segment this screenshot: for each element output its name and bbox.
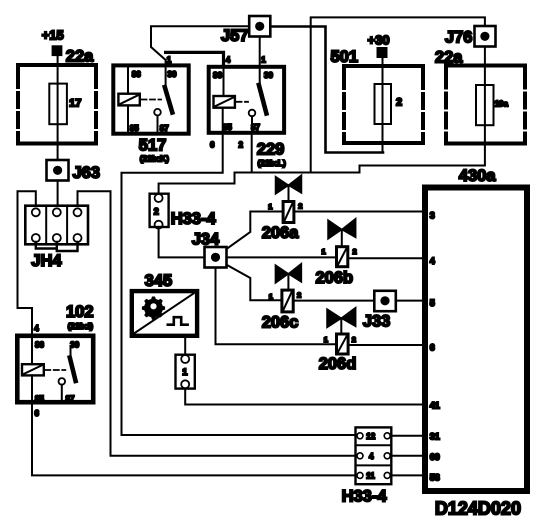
svg-text:H33-4: H33-4 — [171, 210, 217, 228]
svg-text:2: 2 — [154, 207, 159, 217]
svg-text:J76: J76 — [445, 29, 473, 47]
svg-text:1: 1 — [269, 292, 273, 301]
wire: H33-4 pin 12 to 430a pin 31 — [393, 435, 425, 437]
wire: J76 through fuse 22a down and left to relay 229 pin 2 bus — [235, 47, 485, 173]
svg-text:2: 2 — [298, 202, 302, 211]
control unit 345 — [132, 291, 197, 336]
fuse box 22a left with fuse 17 — [18, 65, 96, 144]
svg-text:86: 86 — [132, 70, 141, 79]
wire: valve 206a pin 1 to J34 — [227, 212, 282, 250]
svg-text:6: 6 — [210, 141, 215, 150]
wire: 345 to its connector — [184, 338, 186, 354]
solenoid valve 206d — [319, 308, 357, 374]
relay 102 — [17, 336, 93, 404]
svg-text:41: 41 — [430, 401, 440, 411]
wire: J57 left branch to relay 517 pin 1 — [151, 26, 260, 64]
wire: bus stub down to H33-4 pin feed — [159, 173, 235, 195]
fuse box 22a right with fuse 19a — [446, 66, 525, 144]
svg-text:12: 12 — [366, 432, 375, 441]
svg-text:JH4: JH4 — [31, 252, 62, 270]
svg-text:3: 3 — [430, 211, 435, 221]
solenoid valve 206b — [316, 219, 357, 288]
svg-text:2: 2 — [239, 141, 244, 150]
svg-text:501: 501 — [331, 48, 359, 66]
svg-text:87: 87 — [160, 124, 169, 133]
svg-text:(22b:I): (22b:I) — [68, 321, 94, 331]
svg-text:31: 31 — [430, 432, 440, 442]
fuse 17 — [49, 84, 81, 125]
svg-text:4: 4 — [430, 256, 435, 266]
svg-text:1: 1 — [322, 247, 326, 256]
control unit 430a — [425, 167, 527, 491]
wire: J34 down and right to valve 206d pin 1 — [216, 257, 336, 344]
connector H33-4 upper pin 2 — [150, 194, 217, 229]
wire: JH4 left pin up over and down to relay 102 pin 4 — [18, 191, 36, 365]
svg-text:30: 30 — [168, 70, 177, 79]
svg-text:17: 17 — [69, 98, 81, 110]
svg-text:11: 11 — [366, 471, 375, 480]
solenoid valve 206c — [262, 264, 302, 332]
svg-text:J34: J34 — [192, 231, 220, 249]
connector JH4 — [25, 206, 88, 270]
svg-text:1: 1 — [182, 367, 187, 377]
svg-text:1: 1 — [167, 56, 172, 65]
wire: H33-4 upper pin down to J34 — [159, 227, 216, 257]
wire: valve 206c pin 2 through J33 to 430a pin 5 — [295, 300, 424, 302]
svg-text:430a: 430a — [459, 167, 497, 185]
wire: relay 517 pin1 to relay 229 pin 4 (thick tie bar) — [166, 52, 224, 65]
svg-text:+30: +30 — [368, 33, 390, 48]
fuse box 501 with fuse 2 — [344, 66, 423, 143]
svg-text:87: 87 — [66, 394, 75, 403]
svg-text:2: 2 — [297, 290, 301, 299]
connector J33 — [363, 291, 396, 331]
svg-text:2: 2 — [352, 335, 356, 344]
terminal +30 — [368, 33, 390, 58]
svg-text:+15: +15 — [42, 28, 64, 43]
svg-text:229: 229 — [257, 141, 285, 159]
svg-text:6: 6 — [35, 409, 40, 418]
svg-text:D124D020: D124D020 — [435, 499, 521, 519]
connector J34 — [192, 231, 227, 268]
svg-text:102: 102 — [66, 303, 94, 321]
svg-text:85: 85 — [223, 123, 232, 132]
wire: relay 229 pin 2 down to bus — [251, 134, 253, 173]
svg-text:30: 30 — [70, 341, 79, 350]
connector J76 — [445, 26, 496, 47]
svg-text:(22b:K): (22b:K) — [140, 154, 169, 164]
svg-text:86: 86 — [35, 341, 44, 350]
wire: valve 206b pin 2 to 430a pin 4 — [349, 257, 424, 259]
connector pin 1 below 345 — [176, 355, 195, 389]
svg-text:22a: 22a — [66, 48, 94, 66]
svg-text:6: 6 — [430, 343, 435, 353]
wire: valve 206d pin 2 to 430a pin 6 — [350, 344, 424, 346]
wire: J57 to relay 229 pin 1 — [259, 26, 261, 65]
svg-text:1: 1 — [324, 335, 328, 344]
wire: J76 top link, down to bus junction — [311, 17, 485, 172]
svg-text:87: 87 — [251, 123, 260, 132]
wire: H33-4 pin 11 to 430a pin 58 — [393, 474, 425, 476]
svg-text:1: 1 — [261, 56, 266, 65]
svg-text:206a: 206a — [262, 224, 300, 242]
svg-text:206b: 206b — [316, 269, 354, 287]
fuse 2 — [375, 84, 403, 124]
svg-text:206d: 206d — [319, 355, 357, 373]
wire: relay 229 pin 6 down, left and down to H33-4 pin 12 / 430a pin 31 — [122, 134, 356, 435]
wire: J57 right to fuse 501 bottom — [270, 27, 383, 153]
svg-text:58: 58 — [430, 473, 440, 483]
svg-text:(22b:L): (22b:L) — [258, 158, 287, 168]
svg-text:4: 4 — [226, 56, 231, 65]
solenoid valve 206a — [262, 175, 303, 242]
svg-text:85: 85 — [130, 124, 139, 133]
svg-text:J33: J33 — [363, 313, 391, 331]
wire: 345 unit connector down and right to 430a pin 41 — [185, 389, 424, 405]
wire: J34 diagonal to valve 206c pin 1 — [218, 260, 280, 300]
svg-text:85: 85 — [35, 394, 44, 403]
svg-text:J57: J57 — [221, 27, 249, 45]
wire: relay 102 pin 6 down and right to H33-4 pin 11 / 430a pin 58 — [32, 404, 355, 475]
wire: +15 terminal down through fuse 17 to J63 and JH4 — [57, 54, 59, 209]
svg-text:4: 4 — [369, 452, 374, 461]
svg-text:206c: 206c — [262, 314, 299, 332]
svg-text:4: 4 — [34, 324, 39, 333]
svg-text:60: 60 — [430, 452, 440, 462]
wire: valve 206a pin 2 to 430a pin 3 — [295, 211, 424, 213]
relay 517 — [113, 65, 188, 133]
svg-text:22a: 22a — [435, 49, 463, 67]
svg-text:1: 1 — [268, 202, 272, 211]
svg-text:J63: J63 — [73, 164, 101, 182]
fuse 19a — [476, 85, 508, 125]
svg-text:86: 86 — [213, 71, 222, 80]
connector J63 — [47, 160, 101, 182]
wire: H33-4 pin 4 to 430a pin 60 — [393, 455, 425, 457]
connector H33-4 lower (pins 12 / 4 / 11) — [342, 427, 392, 505]
wire: +30 terminal through fuse 2 of 501 — [382, 56, 384, 153]
wire: JH4 right pin up over and down to H33-4 pin 4 / 430a pin 60 — [78, 191, 356, 456]
terminal +15 — [42, 28, 64, 56]
svg-text:2: 2 — [353, 247, 357, 256]
connector J57 — [221, 16, 270, 45]
relay 229 — [209, 67, 284, 133]
svg-text:345: 345 — [145, 272, 173, 290]
svg-text:517: 517 — [139, 137, 167, 155]
wire: J34 to valve 206b pin 1 — [216, 256, 336, 258]
svg-text:19a: 19a — [495, 100, 509, 109]
svg-text:5: 5 — [430, 298, 435, 308]
svg-text:30: 30 — [264, 71, 273, 80]
svg-text:H33-4: H33-4 — [342, 488, 388, 506]
svg-text:2: 2 — [396, 97, 402, 109]
